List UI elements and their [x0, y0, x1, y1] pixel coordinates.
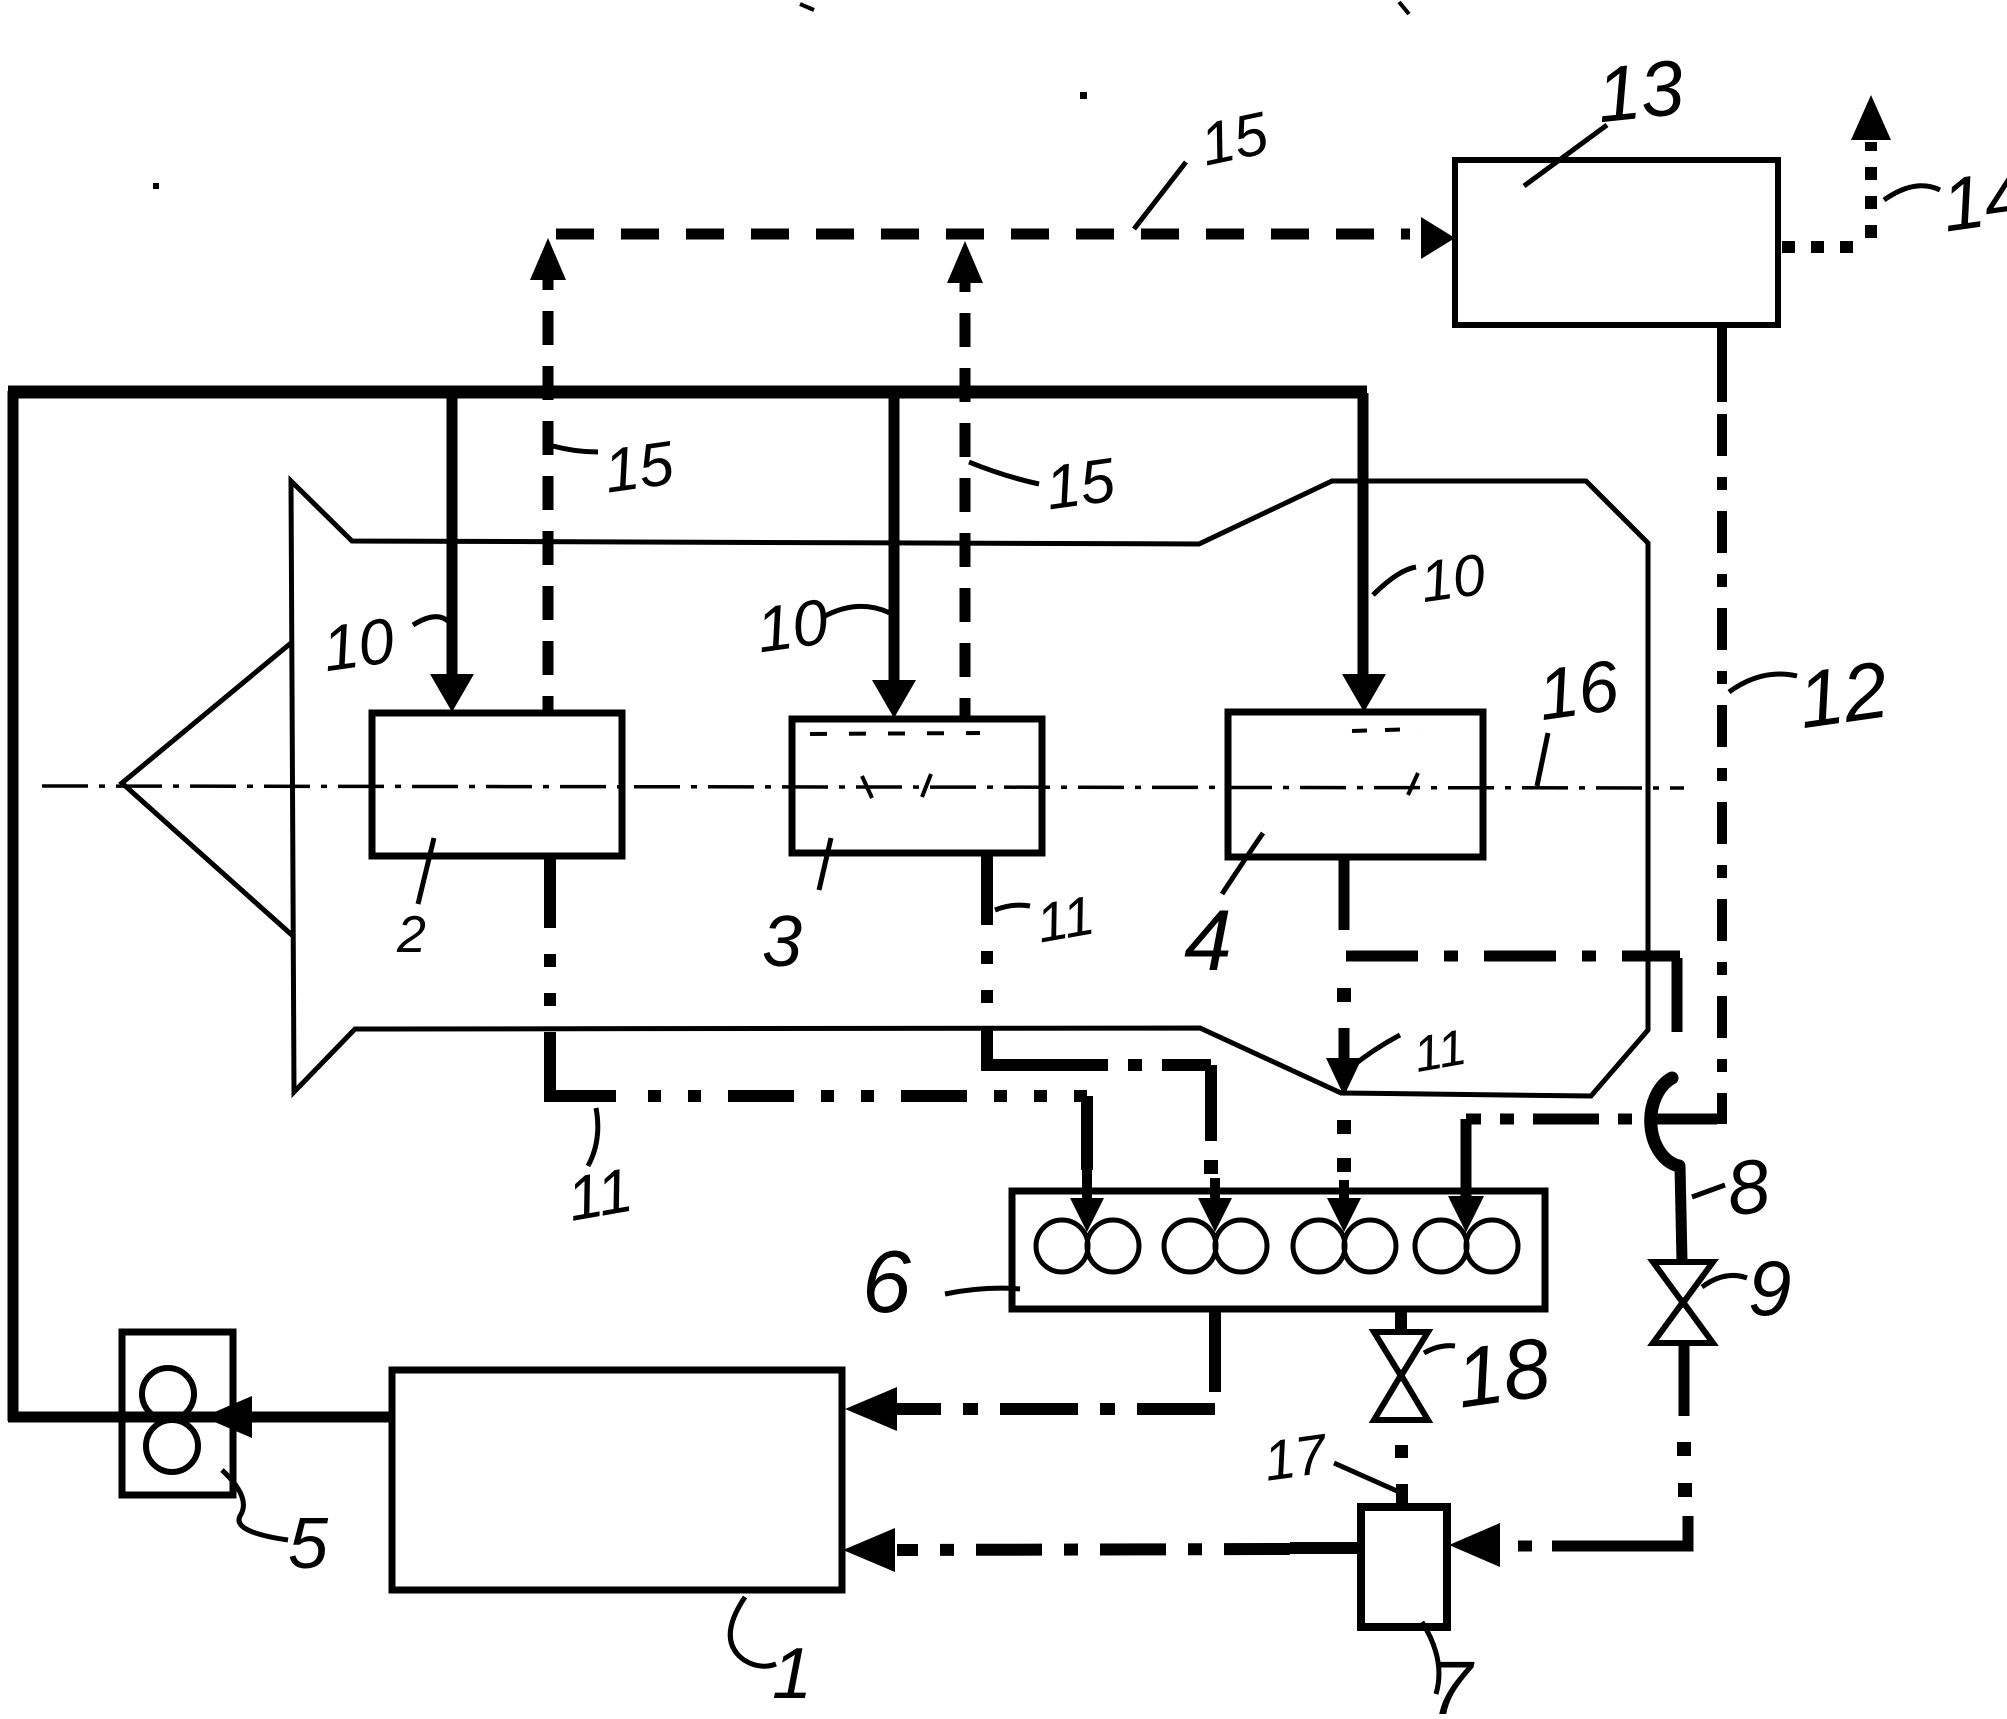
- scavenge line 11 from box 4: [1339, 857, 1350, 930]
- wire: feed arrow 10 into box 2: [447, 393, 458, 678]
- svg-text:9: 9: [1748, 1244, 1791, 1332]
- line 8 vertical to jump: [1672, 958, 1683, 1032]
- svg-text:16: 16: [1533, 646, 1624, 737]
- svg-text:11: 11: [1032, 884, 1099, 955]
- label 15 top: [1134, 99, 1274, 229]
- svg-text:1: 1: [772, 1634, 812, 1714]
- svg-text:10: 10: [752, 585, 833, 666]
- label 15 middle: [969, 445, 1120, 523]
- box 2 bearing: [372, 713, 622, 856]
- label 3: [762, 838, 831, 982]
- label 14: [1884, 153, 2007, 248]
- dashed line 15 vertical to box 3: [960, 258, 971, 719]
- line 8 jump arc over line 12: [1651, 1078, 1679, 1166]
- valve 18 below pump unit: [1395, 1309, 1407, 1332]
- svg-text:18: 18: [1450, 1319, 1556, 1425]
- svg-text:10: 10: [1416, 542, 1489, 615]
- dotted line 14 out of box 13: [1782, 241, 1868, 253]
- box 4 bearing: [1228, 712, 1483, 857]
- svg-text:2: 2: [396, 906, 426, 964]
- label 10 at box 3: [752, 585, 890, 666]
- label 9: [1702, 1244, 1791, 1332]
- label 12: [1729, 645, 1893, 746]
- svg-text:17: 17: [1260, 1421, 1332, 1492]
- svg-text:10: 10: [318, 604, 399, 685]
- svg-text:4: 4: [1184, 893, 1232, 989]
- line 12 horizontal run to pump unit: [1466, 1114, 1717, 1125]
- svg-text:11: 11: [562, 1156, 637, 1235]
- stray ink marks: [800, 4, 814, 10]
- svg-text:13: 13: [1592, 43, 1687, 140]
- label 11 at box 2 line: [562, 1108, 637, 1235]
- svg-text:6: 6: [862, 1232, 911, 1331]
- arrow: return into pump 5: [203, 1396, 252, 1438]
- svg-text:12: 12: [1793, 645, 1894, 746]
- line 17 from box 7 to tank 1: [1290, 1542, 1361, 1554]
- engine centerline: [42, 786, 1684, 788]
- svg-text:15: 15: [600, 429, 678, 507]
- label 17: [1260, 1421, 1397, 1492]
- label 6: [862, 1232, 1020, 1331]
- label 18: [1424, 1319, 1556, 1425]
- svg-text:11: 11: [1409, 1019, 1470, 1083]
- valve 9: [1653, 1262, 1713, 1343]
- wire: return run to pump 5: [8, 1412, 392, 1423]
- wire: feed arrow 10 into box 4: [1358, 393, 1369, 678]
- line 8 horizontal inside engine: [1346, 951, 1680, 962]
- label 2: [396, 838, 434, 964]
- dashed line 15 vertical to box 2: [543, 256, 554, 713]
- dashed line 15 horizontal to box 13: [556, 229, 1410, 240]
- svg-text:15: 15: [1041, 445, 1119, 523]
- wire: feed arrow 10 into box 3: [889, 393, 900, 684]
- outlet from pump unit 6 down to tank 1: [1209, 1309, 1221, 1392]
- svg-text:3: 3: [762, 902, 802, 982]
- label 11 at box 3 line: [995, 884, 1099, 955]
- box 3 bearing: [792, 719, 1042, 853]
- line 12 from box 13 down: [1717, 325, 1727, 402]
- line 17 from junction into box 7: [1500, 1541, 1612, 1552]
- label 10 at box 2: [318, 604, 449, 685]
- label 5: [222, 1470, 329, 1584]
- pump inlet arrowheads: [1070, 1198, 1104, 1232]
- svg-text:14: 14: [1937, 153, 2007, 248]
- wire: main supply loop top run: [8, 386, 1367, 399]
- pump pair circles 1: [1036, 1220, 1518, 1272]
- pump 5: [122, 1332, 233, 1495]
- label 11 at box 4 line: [1350, 1019, 1470, 1083]
- engine nacelle outline: [291, 481, 1648, 1096]
- label 16: [1533, 646, 1624, 786]
- line 8 down to valve 9: [1680, 1166, 1682, 1262]
- faint marks in box 4: [1352, 729, 1418, 795]
- scavenge line 11 from box 2: [544, 856, 556, 1095]
- svg-text:5: 5: [288, 1504, 329, 1584]
- box 13: [1455, 160, 1778, 325]
- label 4: [1184, 833, 1263, 989]
- pump unit 6 box: [1012, 1191, 1545, 1309]
- label 10 at box 4: [1373, 542, 1489, 615]
- tank box 1: [392, 1370, 842, 1590]
- label 7: [1422, 1622, 1475, 1719]
- scavenge line 11 from box 3: [981, 853, 993, 1062]
- wire: main supply loop left vertical: [8, 391, 19, 1421]
- label 15 left: [553, 429, 678, 507]
- label 8: [1692, 1143, 1775, 1233]
- svg-text:7: 7: [1430, 1646, 1475, 1714]
- label 1: [730, 1597, 812, 1714]
- faint marks in box 3: [810, 733, 980, 798]
- spinner cone: [122, 643, 293, 936]
- wire below valve 9 to junction 17: [1679, 1343, 1690, 1416]
- label 13: [1524, 43, 1688, 186]
- box 7: [1361, 1507, 1447, 1627]
